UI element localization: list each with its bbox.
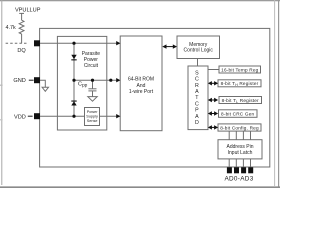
arrow ROM-MCL double	[162, 44, 177, 48]
svg-text:A: A	[195, 89, 199, 95]
8-bit CRC generator box	[219, 110, 258, 118]
svg-text:Parasite: Parasite	[82, 51, 101, 57]
pin AD0	[227, 167, 232, 173]
label VDD dash	[28, 116, 33, 117]
svg-text:VPULLUP: VPULLUP	[15, 8, 41, 14]
text power supply sense	[86, 110, 98, 123]
pin AD2	[241, 167, 246, 173]
svg-text:Input Latch: Input Latch	[228, 150, 253, 156]
svg-text:And: And	[137, 83, 146, 89]
svg-text:C: C	[195, 101, 199, 107]
wire config reg to latch line AD0	[228, 131, 230, 140]
diode D2 cathode bar	[71, 101, 76, 102]
wire internal VDD rail	[74, 79, 118, 81]
8-bit TH register box	[218, 80, 261, 87]
wire latch to pin AD3	[250, 159, 252, 167]
svg-text:GND: GND	[13, 78, 25, 84]
capacitor Cpp plate bottom	[88, 90, 96, 92]
arrow scratchpad-CRC double	[208, 111, 218, 115]
svg-text:S: S	[195, 70, 199, 76]
8-bit config register box	[218, 124, 261, 131]
wire latch to pin AD0	[228, 159, 230, 167]
svg-text:P: P	[195, 108, 199, 114]
junction dot rail-cap	[91, 79, 94, 82]
label GND dash	[29, 80, 34, 81]
16-bit temp register box	[219, 66, 261, 73]
svg-text:64-Bit ROM: 64-Bit ROM	[128, 77, 154, 83]
svg-text:Power: Power	[87, 110, 98, 114]
pin DQ	[34, 40, 40, 46]
figure frame top edge	[0, 0, 280, 2]
wire scratchpad to 16-bit temp reg	[208, 69, 219, 71]
wire VPULLUP stem	[21, 13, 23, 20]
diode D1 triangle down	[71, 55, 76, 59]
pin AD1	[234, 167, 239, 173]
parasite power circuit box	[57, 36, 106, 130]
wire GND elbow	[37, 80, 45, 87]
svg-text:1-wire Port: 1-wire Port	[129, 89, 154, 95]
arrow scratchpad-TL double	[208, 98, 218, 102]
wire DQ solid to ROM	[37, 42, 118, 44]
wire config reg to latch line AD2	[242, 131, 244, 140]
svg-text:DQ: DQ	[17, 48, 26, 54]
diode D2 triangle up	[71, 101, 76, 105]
text scratchpad vertical	[195, 70, 199, 126]
svg-text:C: C	[195, 77, 199, 83]
wire power supply sense to ROM	[100, 115, 118, 117]
junction dot rail-diode	[72, 79, 75, 82]
svg-text:Cpp: Cpp	[78, 82, 88, 89]
svg-text:16-bit Temp Reg: 16-bit Temp Reg	[221, 67, 258, 72]
pin AD3	[248, 167, 253, 173]
scratchpad box	[188, 66, 208, 130]
svg-text:4.7k: 4.7k	[6, 25, 16, 31]
wire config reg to latch line AD1	[235, 131, 237, 140]
arrowhead DQ into ROM	[116, 41, 120, 45]
arrowhead sense into ROM	[116, 114, 120, 118]
svg-text:VDD: VDD	[14, 114, 26, 120]
svg-text:AD0-AD3: AD0-AD3	[224, 176, 253, 183]
left margin tick 2	[0, 119, 3, 120]
junction dot rail-right	[109, 79, 112, 82]
wire diode2 branch vertical	[73, 80, 75, 116]
memory control logic box U-MCL	[177, 36, 220, 59]
8-bit TL register box	[219, 97, 262, 104]
ground symbol Cpp open arrow	[88, 97, 97, 102]
resistor R 4.7k zigzag	[19, 20, 24, 34]
svg-text:D: D	[195, 120, 199, 126]
junction dot DQ-diode1	[72, 42, 75, 45]
VPULLUP terminal bar	[19, 12, 24, 14]
arrow scratchpad-config double	[208, 125, 218, 129]
ground symbol GND open arrow	[42, 87, 48, 91]
wire config reg to latch line AD3	[250, 131, 252, 140]
svg-text:R: R	[195, 83, 199, 89]
address pin input latch box	[218, 140, 262, 159]
power supply sense box	[85, 108, 100, 126]
wire MCL to scratchpad	[197, 59, 199, 67]
wire resistor to DQ line	[21, 34, 23, 43]
svg-text:Sense: Sense	[87, 119, 98, 123]
svg-text:Supply: Supply	[86, 115, 98, 119]
svg-text:8-bit Config. Reg: 8-bit Config. Reg	[220, 126, 259, 131]
figure frame bottom edge	[0, 186, 280, 188]
64-bit ROM box	[120, 36, 162, 131]
wire capacitor stem top	[92, 80, 94, 88]
figure frame left edge	[1, 0, 3, 185]
figure frame right edge inner	[274, 0, 276, 186]
wire VDD to power supply sense	[37, 115, 85, 117]
svg-text:Control Logic: Control Logic	[183, 48, 213, 54]
arrowhead rail into ROM	[116, 78, 120, 82]
diode D1 cathode bar	[71, 59, 76, 60]
svg-text:Circuit: Circuit	[84, 63, 99, 69]
svg-text:8-bit CRC Gen: 8-bit CRC Gen	[221, 111, 255, 116]
wire diode1 branch vertical	[73, 43, 75, 80]
main device box	[40, 28, 270, 167]
pin VDD	[34, 113, 40, 119]
svg-text:A: A	[195, 114, 199, 120]
left margin tick 1	[0, 85, 3, 86]
junction dot VDD-diode2	[72, 115, 75, 118]
wire latch to pin AD2	[242, 159, 244, 167]
wire capacitor stem bottom	[92, 91, 94, 97]
wire latch to pin AD1	[235, 159, 237, 167]
arrow scratchpad-TH double	[208, 81, 218, 85]
wire DQ dashed external	[6, 42, 28, 44]
pin GND	[34, 77, 40, 83]
figure frame right edge outer	[278, 0, 280, 188]
capacitor Cpp plate top	[88, 88, 96, 90]
